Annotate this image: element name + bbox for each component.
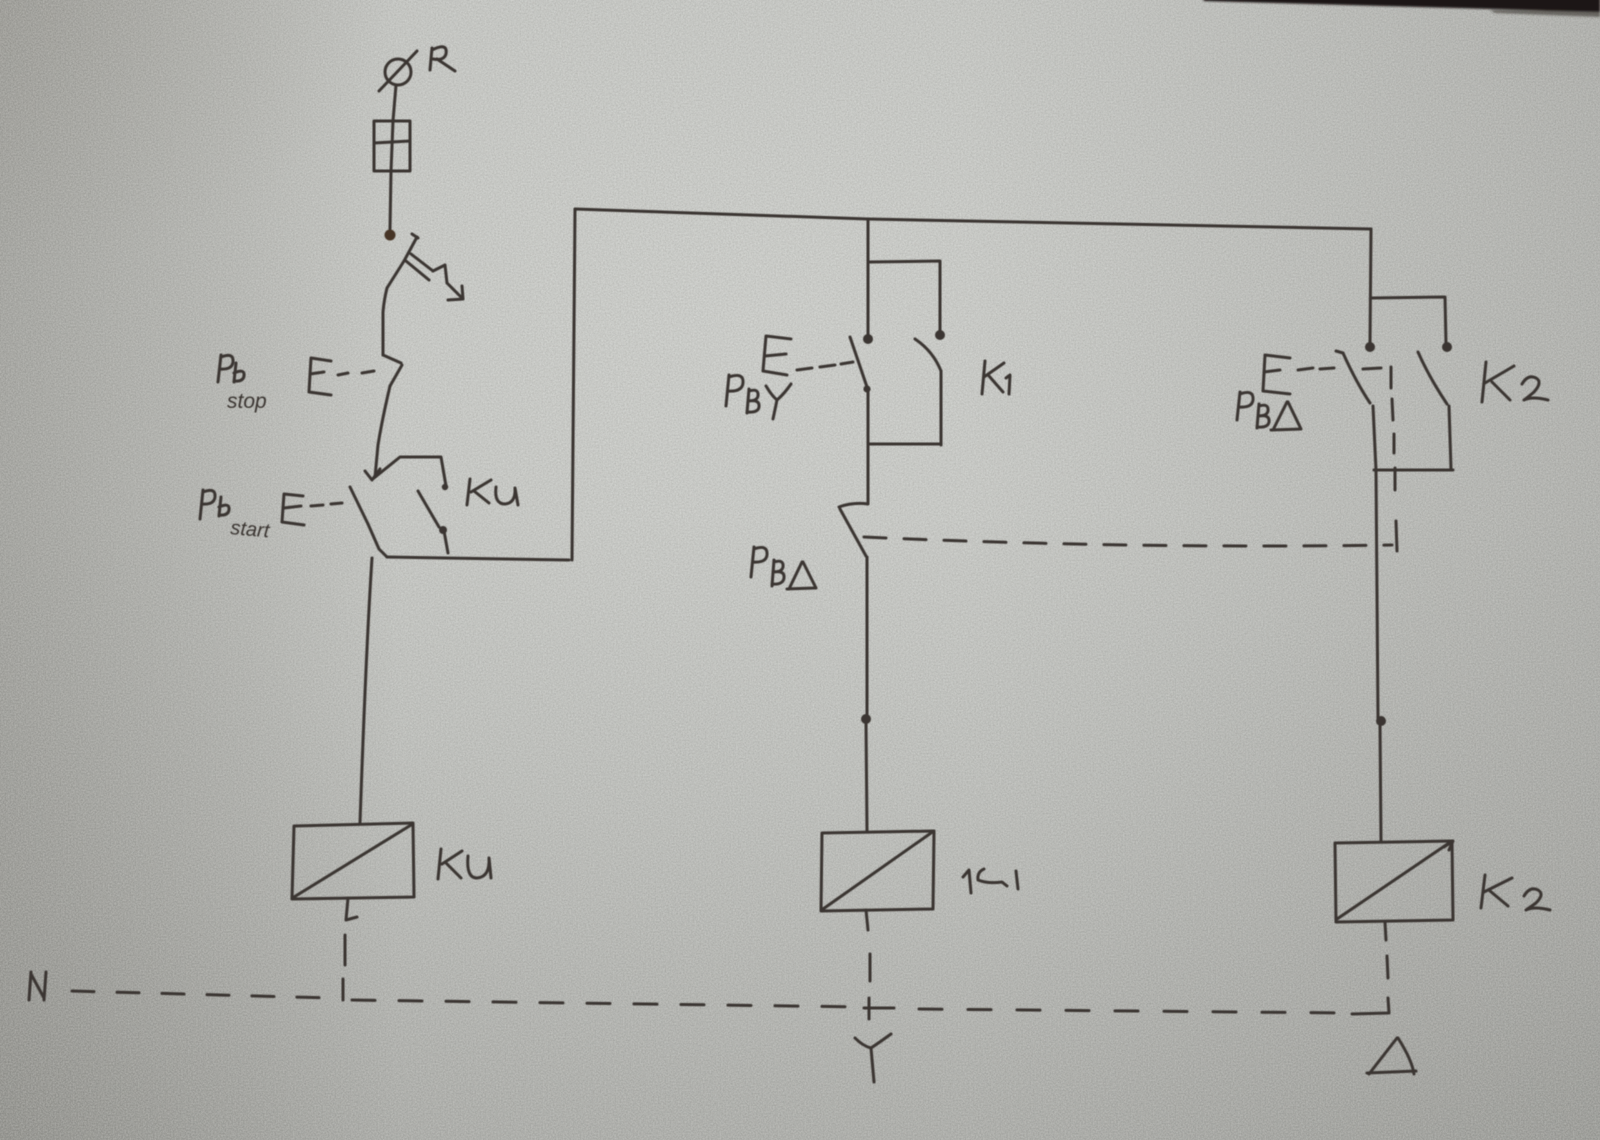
actuator symbol E (PB-Y) [763, 336, 853, 375]
KU auxiliary contact branch top wire [374, 457, 446, 486]
coil K1 [821, 831, 934, 911]
label PB delta (right) [1237, 392, 1301, 430]
label KU (coil) [438, 849, 491, 879]
actuator symbol E (stop) [309, 358, 374, 395]
dashed link below KU [343, 935, 345, 1000]
dashed link below K1 [869, 954, 872, 981]
push button PB stop (NC contact) [375, 355, 402, 477]
wire NC to K1 coil [866, 557, 869, 715]
junction dot K2 column [1376, 716, 1386, 726]
terminal dot PB-Y [863, 334, 873, 344]
dark page edge top right [1202, 0, 1600, 17]
label K1 (contact) [982, 361, 1010, 394]
push button PB-delta NC contact (middle) [839, 503, 868, 556]
label PB delta (middle) [751, 547, 816, 589]
K2 parallel branch top wire [1372, 297, 1446, 344]
svg-text:stop: stop [227, 390, 267, 413]
push button PB-delta NO contact (right) [1336, 351, 1376, 470]
label K1 (coil) [963, 869, 1018, 893]
wire junction to coil K2 [1380, 724, 1381, 842]
K1 parallel branch bottom wire [868, 443, 941, 446]
coil K2 [1335, 841, 1453, 922]
KU auxiliary contact (NO) [418, 491, 448, 553]
wire down to coil KU [360, 558, 372, 823]
crossing mark at K1 coil column [864, 998, 894, 1019]
neutral dashed wire N middle section [352, 1000, 864, 1007]
terminal dot K2 contact [1442, 342, 1452, 352]
label K2 (contact) [1482, 362, 1548, 402]
actuator symbol E (start) [282, 494, 342, 525]
K1 auxiliary contact (NO) [915, 339, 941, 445]
phase label R [430, 47, 455, 71]
wire junction to coil K1 [866, 722, 867, 831]
K2 parallel branch bottom wire [1374, 469, 1453, 472]
push button PB-Y (NO contact) [850, 337, 871, 444]
K2 auxiliary contact (NO) [1418, 352, 1451, 469]
terminal dot K1 contact [935, 330, 945, 340]
K1 parallel branch top wire [869, 261, 940, 332]
label Pb start [200, 490, 272, 542]
neutral dashed wire N right section [919, 1009, 1346, 1013]
wire PB-delta to K2 coil [1376, 470, 1378, 718]
phase symbol Ø [379, 51, 417, 91]
bus corner drop wire (right branch) [1370, 229, 1371, 344]
label PB Y [726, 375, 791, 419]
bottom wire of start/KU parallel [387, 557, 569, 560]
label K2 (coil) [1481, 875, 1550, 910]
top bus wire [575, 209, 1371, 229]
K1 branch drop wire [867, 219, 870, 336]
junction arrowhead at start node [365, 469, 380, 480]
neutral corner dashes to K2 coil [1352, 956, 1389, 1014]
mechanical link dashed wire (middle to right) [864, 537, 1392, 546]
label Pb stop [218, 355, 267, 413]
wire PB-Y to PB-delta NC [867, 444, 870, 503]
wire fuse to node [390, 171, 391, 229]
coil KU bottom stub [346, 898, 357, 920]
label KU (contact) [467, 479, 518, 505]
riser wire to top bus [572, 209, 575, 560]
coil KU [292, 823, 414, 899]
junction dot above breaker [385, 230, 396, 241]
fuse F1 [374, 121, 410, 171]
push button PB start (NO contact) [350, 487, 387, 557]
mechanical link vertical dashes (right) [1391, 367, 1397, 551]
actuator symbol E (PB-delta) [1263, 355, 1381, 394]
junction dot K1 column [861, 714, 871, 724]
label Y (star) [855, 1034, 891, 1082]
neutral label N [29, 972, 46, 1000]
breaker switch Q1 [383, 234, 463, 355]
terminal dot PB-delta right [1365, 342, 1375, 352]
neutral dashed wire N left section [72, 991, 331, 998]
coil K2 bottom stub [1385, 922, 1386, 940]
KU contact terminal dot [442, 484, 448, 490]
wire phase to fuse [393, 85, 396, 121]
coil K1 bottom stub [866, 910, 868, 930]
label delta [1367, 1038, 1416, 1074]
svg-text:start: start [230, 517, 272, 542]
